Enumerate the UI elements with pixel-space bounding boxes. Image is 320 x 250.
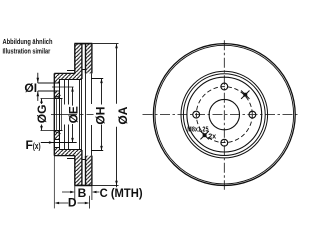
front view: bolt hole left	[193, 111, 200, 118]
svg-text:F: F	[26, 138, 33, 152]
hat wall band hatch (section)	[54, 73, 82, 155]
svg-text:ØG: ØG	[35, 105, 49, 124]
outboard plate edges	[75, 44, 82, 186]
front view: vertical centreline	[223, 40, 225, 189]
hub step edges (thin)	[65, 79, 69, 150]
svg-text:C (MTH): C (MTH)	[100, 186, 143, 200]
ring outline bottom edge	[74, 184, 92, 186]
inboard plate outer face edge segments	[91, 73, 93, 155]
thread hole marker star lower left	[200, 131, 208, 139]
hat band top edge	[54, 72, 75, 74]
hat band bottom edge (lower view)	[54, 155, 75, 157]
bore far-side step lines	[57, 99, 62, 131]
dimension ØI	[24, 73, 39, 101]
dimension ØE	[67, 87, 81, 143]
svg-text:ØI: ØI	[24, 81, 37, 95]
dimension ØA	[92, 44, 130, 188]
front view: friction surface inner circle	[181, 71, 268, 158]
front view: outer chamfer circle	[155, 45, 294, 184]
bolt hole edges (section, upper)	[38, 83, 60, 91]
front view: hat outer circle	[187, 77, 262, 152]
mounting flange hatch (section, with bolt holes left white)	[54, 79, 60, 150]
hat band inner edges	[60, 79, 82, 150]
svg-text:(x): (x)	[33, 141, 41, 152]
svg-text:ØA: ØA	[116, 106, 130, 124]
dimension F(x)	[26, 138, 77, 152]
friction face inner radius lines	[67, 71, 75, 159]
friction ring inboard plate hatch (section)	[86, 44, 92, 186]
friction ring outboard plate hatch (section)	[75, 44, 82, 186]
centre bore chamfers	[54, 95, 61, 134]
centre bore edges	[54, 99, 63, 131]
front view: bolt hole bottom	[221, 139, 228, 146]
svg-text:Illustration similar: Illustration similar	[3, 49, 51, 56]
thread hole marker star upper right	[241, 91, 249, 99]
note text "Abbildung ähnlich / Illustration similar"	[3, 39, 53, 55]
hat mounting face	[53, 73, 55, 155]
centre bore edge extension lines	[41, 99, 55, 131]
front view: horizontal centreline	[143, 114, 299, 116]
svg-text:ØH: ØH	[93, 107, 107, 125]
front view: bolt circle (dashed)	[196, 87, 252, 143]
vent slot inner end lines	[82, 70, 86, 160]
svg-text:D: D	[68, 196, 77, 210]
bolt hole edges (section, lower)	[54, 140, 60, 148]
svg-text:Abbildung ähnlich: Abbildung ähnlich	[3, 39, 53, 46]
inboard plate edges	[86, 44, 92, 186]
dimension ØG	[35, 99, 49, 131]
svg-text:B: B	[78, 186, 87, 200]
svg-text:2x: 2x	[208, 131, 216, 140]
dimension ØH	[91, 79, 107, 151]
dimension B	[62, 186, 99, 201]
front view: outer diameter circle	[153, 44, 295, 186]
outboard plate inner edges through middle (thin)	[80, 79, 82, 150]
front view: bolt hole right	[249, 111, 256, 118]
bolt hole centreline (upper)	[52, 86, 74, 88]
svg-text:ØE: ØE	[67, 106, 81, 123]
dimension D	[54, 156, 89, 210]
axis centreline (left view)	[51, 114, 94, 116]
inboard plate edges through middle (thin)	[85, 73, 87, 155]
front view: vent inner circle	[183, 74, 265, 156]
ring outline top edge	[74, 43, 92, 45]
front view: centre bore circle	[209, 99, 239, 129]
front view: bolt hole top	[221, 83, 228, 90]
svg-text:M8x1,25: M8x1,25	[187, 124, 208, 133]
